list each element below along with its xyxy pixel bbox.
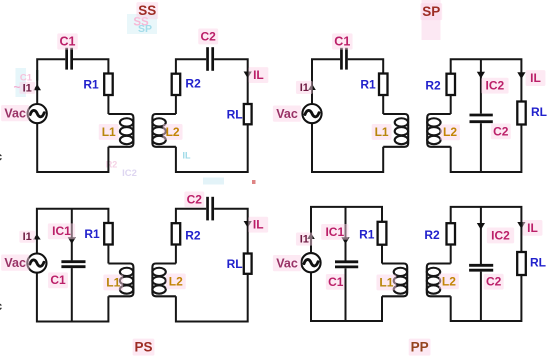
source Vac (SP): [302, 104, 321, 123]
svg-text:I1: I1: [23, 82, 32, 94]
label IC2: [481, 78, 508, 94]
capacitor C2 (PP, parallel): [469, 265, 493, 270]
svg-text:IC2: IC2: [486, 79, 505, 93]
label L1: [99, 124, 119, 140]
svg-text:L1: L1: [102, 125, 116, 139]
svg-text:L1: L1: [106, 275, 120, 289]
label L2: [163, 124, 183, 140]
resistor RL (PP): [517, 252, 526, 275]
ghost pink-cyan smudge above PS secondary: [203, 178, 224, 185]
current arrow IC1 (PS, down): [68, 237, 76, 244]
inductor L2 (PS): [152, 264, 176, 297]
wire PP secondary top rail: [451, 207, 522, 252]
svg-text:C2: C2: [493, 124, 509, 138]
svg-text:Vac: Vac: [276, 107, 298, 121]
capacitor C1 (SS, series): [67, 48, 72, 70]
svg-text:IC1: IC1: [52, 224, 71, 238]
svg-text:IL: IL: [183, 151, 192, 161]
label Vac: [1, 255, 29, 271]
svg-text:I1: I1: [300, 82, 309, 94]
ghost pink band behind SP title: [422, 0, 441, 40]
svg-text:R1: R1: [359, 228, 375, 242]
wire PP secondary mid branch upper: [480, 207, 482, 264]
svg-text:SP: SP: [138, 23, 152, 35]
current arrow IC2 (SP, down): [477, 72, 485, 79]
ghost green wire segment above I1 (Q1): [36, 70, 38, 81]
label I1: [19, 82, 35, 94]
label C2: [184, 191, 204, 207]
svg-text:R2: R2: [425, 78, 441, 92]
wire SS secondary: C2 right to RL top: [214, 59, 248, 104]
wire PP secondary: R2 bottom to L2 top: [450, 245, 452, 264]
wire SS primary: R1 bottom to L1 top: [107, 95, 109, 114]
svg-text:PS: PS: [134, 340, 152, 355]
label IL: [248, 217, 268, 233]
wire PS primary bottom rail: [37, 273, 109, 322]
svg-text:C1: C1: [60, 35, 76, 49]
wire PS primary mid branch upper: [71, 209, 73, 261]
wire PS primary: R1 bottom to L1 top: [107, 245, 109, 264]
svg-text:I1: I1: [23, 231, 32, 243]
inductor L2 (PP): [427, 264, 451, 297]
label L1: [103, 275, 123, 291]
svg-text:R1: R1: [360, 78, 376, 92]
wire SP secondary bottom rail: [451, 125, 522, 173]
svg-text:IL: IL: [253, 68, 264, 82]
wire SP primary: Vac top to C1 left: [312, 59, 340, 104]
svg-text:RL: RL: [530, 256, 546, 270]
wire SP secondary: R2 bottom to L2 top: [450, 95, 452, 114]
label C1: [57, 33, 78, 49]
svg-text:C1: C1: [328, 275, 344, 289]
svg-text:PP: PP: [411, 340, 429, 355]
resistor RL (PS): [244, 254, 252, 274]
current arrow IL (PP, down): [517, 222, 525, 229]
svg-text:R2: R2: [424, 228, 440, 242]
wire SP primary bottom: L1 to Vac: [312, 123, 383, 172]
svg-text:R1: R1: [84, 227, 100, 241]
ghost cyan box near I1 (Q1): [16, 68, 27, 97]
current arrow IL (SS, down): [244, 72, 252, 79]
wire SS secondary: R2 bottom to L2 top: [175, 95, 177, 114]
label IC2: [487, 228, 514, 244]
current arrow I1 (PS, up): [33, 234, 41, 240]
ghost cyan box under SS title: [127, 14, 157, 34]
inductor L1 (PS): [108, 264, 133, 297]
label I1: [296, 81, 313, 94]
wire PS secondary: C2 right to RL top: [214, 209, 248, 254]
label C1: [48, 272, 68, 288]
current arrow I1 (SS, up): [33, 84, 41, 90]
wire PS secondary bottom rail: [176, 274, 248, 322]
label C2: [491, 123, 511, 139]
label Vac: [273, 106, 301, 122]
svg-text:SS: SS: [138, 3, 156, 18]
svg-text:IC2: IC2: [122, 168, 137, 179]
svg-text:Vac: Vac: [4, 256, 26, 270]
wire PP primary mid branch upper: [345, 207, 347, 261]
current arrow I1 (PP, up): [307, 233, 315, 239]
svg-text:Vac: Vac: [276, 256, 298, 270]
source Vac (SS): [28, 104, 47, 123]
resistor R1 (SP): [379, 74, 388, 96]
inductor L2 (SS): [152, 114, 176, 147]
inductor L1 (SP): [383, 114, 408, 147]
resistor R1 (PS): [104, 223, 113, 245]
resistor RL (SP): [517, 102, 525, 125]
wire PP primary top rail: [311, 207, 382, 253]
svg-text:C2: C2: [201, 29, 217, 43]
wire PS secondary: R2 bottom to L2 top: [175, 245, 177, 264]
wire SP secondary top rail: [451, 59, 522, 101]
wire PP secondary bottom rail: [451, 275, 522, 321]
svg-text:L1: L1: [375, 125, 389, 139]
wire PP secondary mid branch lower: [480, 272, 482, 321]
wire SS secondary: R2 top to C2 left: [176, 59, 206, 73]
label IL: [526, 70, 546, 86]
label Vac: [1, 105, 29, 121]
svg-text:SP: SP: [422, 4, 440, 19]
inductor L2 (SP): [427, 114, 451, 147]
svg-text:I1: I1: [300, 234, 309, 246]
label C2: [484, 274, 504, 290]
label L2: [166, 273, 186, 289]
label IC1: [321, 224, 348, 240]
resistor R2 (PS): [172, 223, 181, 244]
current arrow IL (PS, down): [244, 221, 252, 228]
svg-text:R1: R1: [83, 78, 99, 92]
current arrow IC2 (PP, down): [477, 223, 485, 230]
svg-text:C2: C2: [486, 275, 502, 289]
label IL: [248, 67, 268, 83]
label I1: [296, 233, 313, 246]
svg-text:c: c: [0, 299, 3, 313]
inductor L1 (SS): [108, 114, 133, 147]
capacitor C2 (SP, parallel): [470, 115, 493, 122]
source Vac (PP): [301, 253, 320, 272]
svg-text:L2: L2: [443, 125, 457, 139]
label C2: [198, 29, 218, 45]
title PS: [133, 339, 155, 356]
svg-text:RL: RL: [531, 105, 547, 119]
svg-text:C1: C1: [334, 35, 350, 49]
resistor R2 (PP): [447, 223, 456, 244]
wire SP primary: R1 bottom to L1 top: [382, 95, 384, 114]
label C1: [332, 33, 353, 49]
wire SS secondary bottom: L2 to RL: [176, 124, 248, 172]
label I1: [19, 231, 35, 243]
label L1: [376, 275, 396, 291]
svg-text:IC2: IC2: [491, 228, 510, 242]
wire SP primary: C1 right to R1 top: [348, 59, 384, 73]
wire SS primary: Vac top to C1 left: [37, 59, 65, 104]
current arrow IL (SP, down): [517, 72, 525, 79]
title SS: [136, 2, 158, 19]
title SP: [420, 3, 442, 20]
wire PS primary mid branch lower: [71, 268, 73, 321]
svg-text:L1: L1: [379, 275, 393, 289]
capacitor C1 (PP, parallel): [335, 262, 358, 267]
svg-text:IL: IL: [530, 71, 541, 85]
svg-text:L2: L2: [166, 125, 180, 139]
svg-text:RL: RL: [227, 257, 243, 271]
svg-text:IL: IL: [253, 218, 264, 232]
current arrow I1 (SP, up): [308, 84, 316, 90]
resistor R1 (SS): [104, 74, 113, 96]
label L2: [439, 273, 459, 289]
svg-text:c: c: [0, 150, 3, 164]
label L1: [372, 124, 392, 140]
label IC1: [48, 223, 75, 239]
source Vac (PS): [27, 254, 46, 273]
label Vac: [273, 255, 301, 271]
inductor L1 (PP): [382, 264, 407, 297]
wire SP secondary mid branch upper: [480, 59, 482, 113]
wire PS primary top rail: [37, 209, 109, 254]
wire PP primary: R1 bottom to L1 top: [381, 245, 383, 264]
svg-text:L2: L2: [169, 274, 183, 288]
svg-text:R2: R2: [185, 77, 201, 91]
svg-text:C2: C2: [187, 192, 203, 206]
title PP: [409, 339, 431, 356]
resistor R2 (SS): [172, 74, 181, 95]
svg-text:IC1: IC1: [325, 225, 344, 239]
svg-text:Vac: Vac: [4, 106, 26, 120]
svg-text:RL: RL: [227, 107, 243, 121]
capacitor C1 (SP, series): [341, 48, 346, 70]
wire PP primary bottom rail: [311, 273, 382, 322]
resistor RL (SS): [244, 104, 252, 124]
label L2: [440, 124, 460, 140]
current arrow IC1 (PP, down): [341, 237, 349, 244]
wire SS primary bottom: L1 to Vac: [37, 123, 108, 172]
ghost red tick above PS secondary: [252, 180, 256, 184]
svg-text:R2: R2: [185, 229, 201, 243]
wire PP primary mid branch lower: [345, 268, 347, 321]
svg-text:IL: IL: [527, 221, 538, 235]
resistor R1 (PP): [378, 222, 387, 245]
capacitor C1 (PS, parallel): [61, 262, 85, 267]
label C1: [326, 274, 346, 290]
wire SS primary: C1 right to R1 top: [73, 59, 109, 73]
capacitor C2 (SS, series): [208, 47, 213, 71]
resistor R2 (SP): [447, 74, 456, 95]
svg-text:C1: C1: [50, 273, 66, 287]
capacitor C2 (PS, series): [208, 197, 213, 221]
wire SP secondary mid branch lower: [480, 123, 482, 172]
label IL: [523, 220, 543, 236]
wire PS secondary: R2 top to C2 left: [176, 209, 206, 224]
svg-text:L2: L2: [442, 274, 456, 288]
